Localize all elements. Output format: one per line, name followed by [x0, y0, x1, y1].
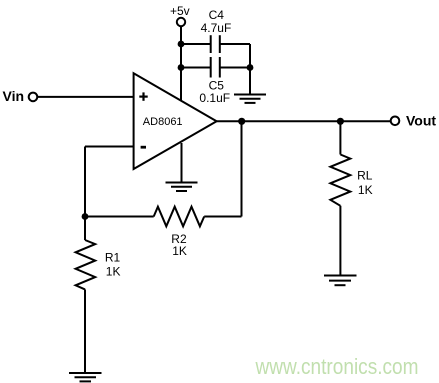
svg-text:Vin: Vin — [3, 88, 25, 104]
ground (RL) — [324, 276, 357, 286]
ground (op-amp) — [166, 183, 198, 192]
wire op-amp V- to ground — [181, 143, 183, 183]
node feedback/R1 junction — [82, 213, 89, 220]
pin + (noninverting) — [139, 92, 147, 100]
node supply-bottom junction — [178, 64, 185, 71]
wire R2 to feedback vertical — [204, 216, 241, 218]
resistor R2 — [154, 207, 205, 227]
wire feedback right vertical — [241, 121, 243, 216]
node output/feedback junction — [238, 118, 245, 125]
node decoupling rail junction — [247, 64, 254, 71]
svg-text:+5v: +5v — [170, 4, 190, 18]
resistor R1 — [76, 240, 96, 289]
svg-text:www.cntronics.com: www.cntronics.com — [255, 354, 419, 379]
capacitor C5 — [211, 57, 220, 78]
node supply-top junction — [178, 41, 185, 48]
svg-text:0.1uF: 0.1uF — [199, 91, 230, 105]
output terminal Vout — [391, 113, 437, 129]
wire C5 right plate to right rail — [220, 67, 250, 69]
power terminal +5v — [170, 4, 190, 26]
node output/RL junction — [337, 118, 344, 125]
wire R1 to ground — [84, 289, 86, 373]
ground (decoupling caps) — [234, 95, 266, 103]
resistor RL — [330, 155, 350, 206]
wire top rail to C4 left plate — [181, 43, 211, 45]
svg-text:1K: 1K — [358, 183, 373, 197]
svg-text:1K: 1K — [106, 264, 121, 278]
wire bottom rail to C5 left plate — [181, 67, 211, 69]
svg-text:RL: RL — [357, 168, 373, 182]
wire left feedback vertical — [84, 147, 86, 241]
svg-text:R1: R1 — [105, 251, 121, 265]
svg-text:C4: C4 — [209, 8, 225, 22]
wire +5v supply vertical — [180, 26, 182, 100]
pin - (inverting) — [141, 146, 146, 149]
input terminal Vin — [3, 88, 38, 104]
wire RL to ground — [339, 206, 341, 276]
wire R1/R2 node to R2 — [85, 216, 154, 218]
svg-text:AD8061: AD8061 — [143, 116, 183, 128]
wire C4 right plate to right rail — [220, 43, 250, 45]
wire RL top — [339, 121, 341, 154]
capacitor C4 — [211, 35, 220, 53]
op-amp U1 AD8061 — [134, 73, 217, 169]
ground (R1) — [69, 373, 102, 381]
wire decoupling right rail vertical — [249, 44, 251, 94]
svg-text:Vout: Vout — [406, 113, 436, 129]
svg-text:4.7uF: 4.7uF — [201, 21, 232, 35]
wire Vin to op-amp noninverting input — [38, 96, 135, 98]
wire inverting input feedback horizontal — [85, 146, 135, 148]
wire op-amp output to Vout — [217, 120, 391, 122]
svg-text:1K: 1K — [172, 244, 187, 258]
